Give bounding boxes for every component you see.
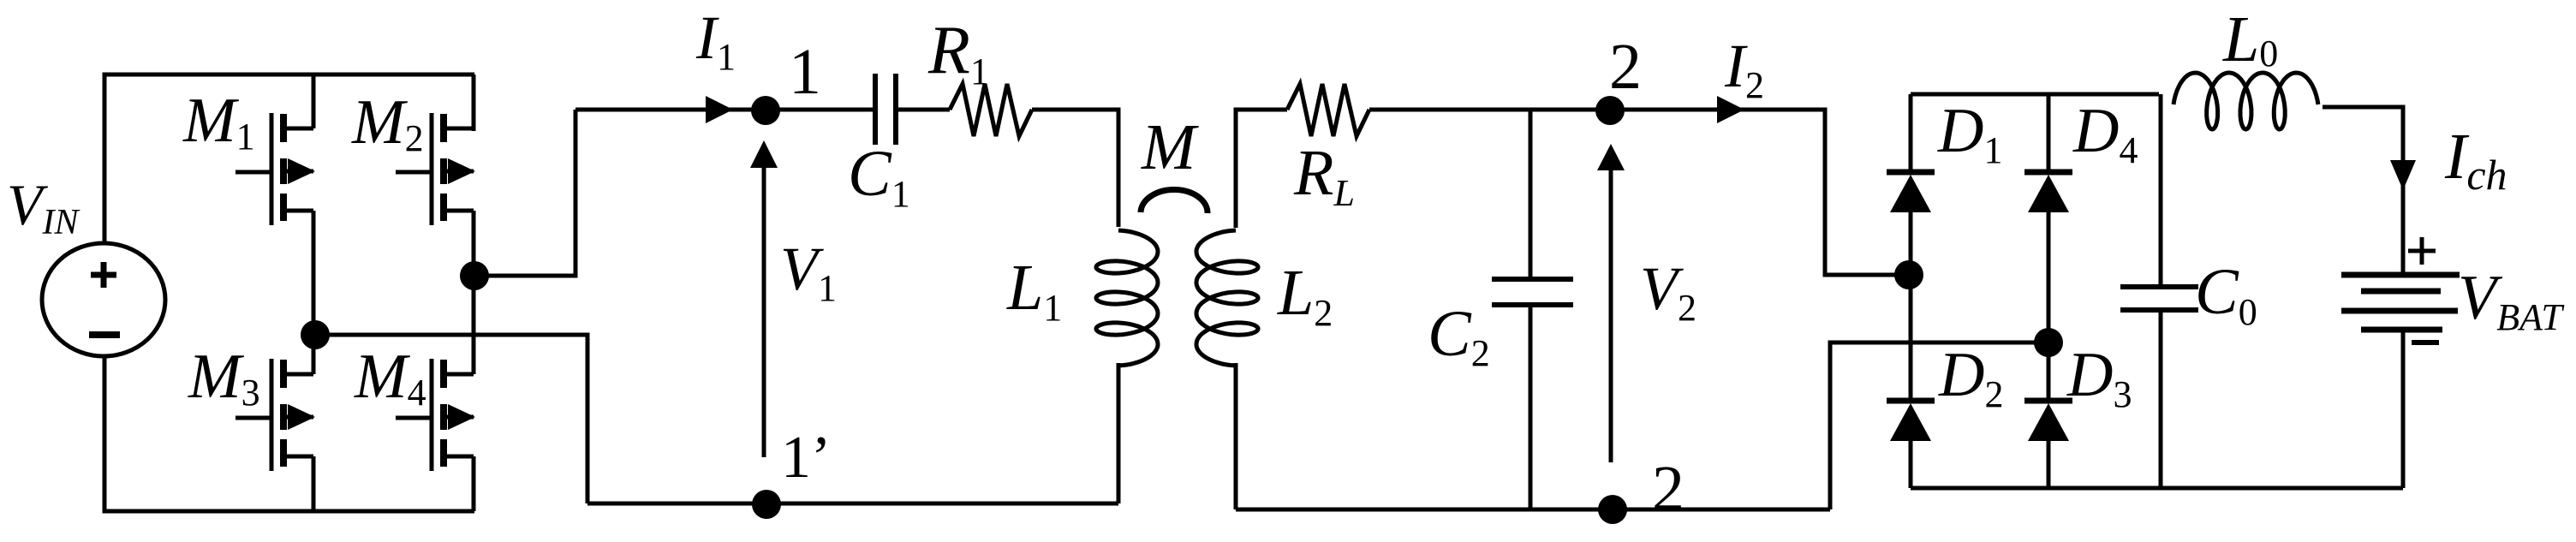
wire M2 drain to top rail	[472, 74, 476, 131]
label L0	[2222, 3, 2278, 75]
wire M2 source to M4 drain (right leg)	[472, 211, 476, 374]
node M2-M4 midpoint	[460, 261, 489, 290]
capacitor C2 top plate	[1492, 277, 1573, 282]
battery plate 4	[2361, 327, 2442, 333]
wire secondary bottom to rectifier	[1830, 342, 2048, 509]
arrow I2	[1717, 96, 1744, 123]
wire bridge right branch top	[2047, 94, 2051, 175]
wire L2 top lead	[1236, 110, 1287, 228]
node M1-M3 midpoint	[301, 320, 330, 349]
capacitor C2 bottom stub	[1529, 305, 1533, 509]
wire C1 to R1	[898, 108, 950, 112]
battery plate 3	[2341, 308, 2458, 314]
node 1	[751, 96, 780, 125]
wire L2 bottom lead	[1234, 363, 1238, 509]
mutual inductance arc M	[1141, 190, 1207, 213]
label M1	[182, 86, 255, 158]
label C2	[1428, 298, 1490, 374]
wire bridge bottom rail	[1911, 486, 2403, 491]
label M4	[354, 342, 426, 414]
capacitor C2 top stub	[1529, 110, 1533, 282]
label L1	[1006, 252, 1062, 329]
wire M4 source to bottom rail	[472, 456, 476, 511]
arrow Ich	[2390, 160, 2416, 190]
label 2 top	[1609, 31, 1642, 103]
transistor M3	[236, 359, 315, 471]
wire RL to node 2	[1369, 108, 1610, 112]
arrow V2	[1597, 144, 1625, 462]
wire R1 to L1 top	[1032, 110, 1118, 227]
capacitor C0 top stub	[2159, 94, 2163, 289]
label Ich	[2444, 121, 2507, 199]
wire bridge right branch bottom	[2047, 441, 2051, 488]
wire M3 source to bottom rail	[312, 456, 316, 511]
label R1	[927, 13, 989, 92]
label M	[1141, 111, 1199, 183]
label M2	[351, 87, 424, 159]
svg-text:2: 2	[1652, 453, 1685, 525]
arrow I1	[706, 96, 733, 123]
battery minus sign	[2412, 340, 2439, 345]
wire bridge right branch middle	[2047, 212, 2051, 403]
resistor RL	[1287, 84, 1369, 136]
label C0	[2195, 256, 2257, 333]
wire M1 source to M3 drain (left leg)	[312, 211, 316, 374]
battery plate 2	[2361, 289, 2441, 295]
wire bridge midpoint to bottom tank	[315, 335, 587, 503]
label L2	[1277, 257, 1333, 334]
svg-text:M: M	[1141, 111, 1199, 183]
svg-text:1: 1	[789, 36, 821, 108]
capacitor C0 bottom stub	[2159, 310, 2163, 488]
diode D3	[2024, 401, 2072, 441]
wire bridge right midpoint to top tank	[474, 110, 575, 276]
wire bridge top rail	[1911, 92, 2159, 97]
node D1-D2	[1894, 260, 1923, 289]
wire secondary bottom	[1236, 508, 1830, 512]
capacitor C0 top plate	[2120, 284, 2198, 289]
label M3	[188, 342, 260, 414]
arrow V1	[750, 140, 778, 457]
svg-text:1’: 1’	[781, 425, 831, 491]
wire bridge left branch top	[1909, 94, 1913, 175]
wire L1 bottom lead	[1117, 363, 1121, 503]
label VIN	[7, 172, 80, 242]
label D4	[2072, 96, 2138, 171]
label D1	[1937, 96, 2002, 171]
wire L0 to battery corner	[2323, 107, 2403, 275]
inductor L1 coil	[1096, 230, 1158, 366]
transistor M1	[236, 113, 315, 225]
label 1	[789, 36, 821, 108]
label D2	[1938, 340, 2003, 415]
label RL	[1293, 137, 1355, 214]
label V1	[780, 235, 837, 309]
VIN minus sign	[89, 331, 120, 338]
transistor M2	[396, 113, 475, 225]
inductor L2 coil	[1196, 230, 1258, 366]
wire battery bottom lead	[2401, 330, 2406, 488]
VIN plus sign	[91, 262, 116, 288]
wire bridge left branch bottom	[1909, 441, 1913, 488]
voltage source VIN circle	[42, 243, 165, 356]
capacitor C1 right plate	[893, 74, 898, 145]
wire bridge left branch middle	[1909, 212, 1913, 403]
diode D2	[1887, 401, 1935, 441]
label I1	[695, 3, 736, 78]
capacitor C1 left plate	[873, 74, 878, 145]
inductor L0 coil	[2173, 73, 2318, 129]
label 1prime	[781, 425, 831, 491]
battery plate 1	[2341, 272, 2460, 278]
wire VIN bottom lead and inverter bottom rail	[104, 355, 474, 511]
node D4-D3	[2034, 328, 2063, 357]
label V2	[1640, 254, 1696, 329]
wire M1 drain to top rail	[312, 74, 316, 128]
capacitor C0 bottom plate	[2120, 307, 2198, 313]
label C1	[848, 138, 910, 215]
wire VIN top lead and inverter top rail	[104, 74, 474, 244]
label 2 bottom	[1652, 453, 1685, 525]
node 2 top	[1595, 96, 1625, 125]
transistor M4	[396, 359, 475, 471]
node 1prime	[752, 490, 781, 519]
wire inverter output to node 1	[575, 108, 873, 112]
label VBAT	[2458, 263, 2565, 338]
node 2 bottom	[1598, 495, 1627, 524]
wire node 2 to rectifier corner	[1610, 110, 1909, 275]
svg-text:2: 2	[1609, 31, 1642, 103]
diode D4	[2024, 172, 2072, 212]
capacitor C2 bottom plate	[1492, 302, 1573, 307]
battery plus sign	[2408, 237, 2436, 265]
resistor R1	[950, 84, 1032, 136]
label D3	[2066, 340, 2132, 415]
diode D1	[1887, 172, 1935, 212]
label I2	[1724, 32, 1764, 106]
wire primary bottom	[587, 502, 1118, 506]
